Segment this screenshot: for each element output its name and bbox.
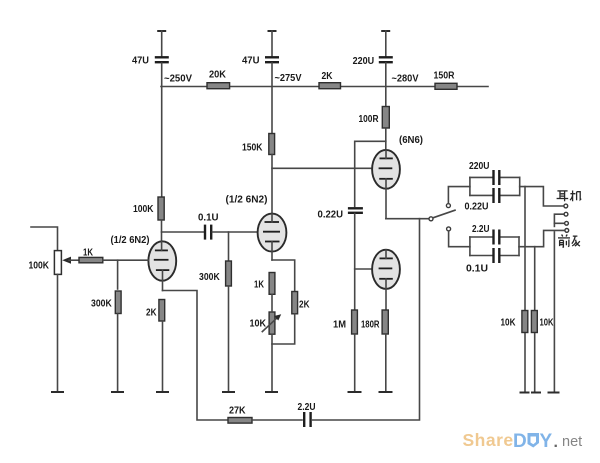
tube V1 (1/2 6N2 input) bbox=[148, 241, 176, 290]
ground pot bbox=[51, 391, 64, 393]
switch common bbox=[429, 217, 433, 221]
resistor 100K (plate load 1) bbox=[158, 197, 164, 220]
wire bbox=[271, 63, 273, 134]
ground 1M bbox=[348, 391, 362, 393]
svg-text:0.1U: 0.1U bbox=[198, 213, 219, 224]
capacitor 2.2U (feedback) bbox=[304, 412, 310, 427]
svg-text:2.2U: 2.2U bbox=[298, 402, 316, 413]
svg-text:2K: 2K bbox=[299, 300, 310, 311]
svg-text:2.2U: 2.2U bbox=[472, 224, 490, 235]
wire bbox=[228, 286, 230, 392]
wire pot bottom bbox=[57, 274, 59, 391]
wire bbox=[117, 314, 119, 392]
B+ bus wire bbox=[161, 86, 488, 88]
wire bbox=[161, 220, 163, 242]
potentiometer 100K body bbox=[54, 251, 61, 275]
label 前级 (preamp) bbox=[558, 235, 580, 248]
resistor 1K (grid stopper) bbox=[79, 257, 103, 262]
resistor 1K (cathode V2) bbox=[269, 273, 275, 295]
svg-text:100K: 100K bbox=[29, 261, 50, 272]
svg-text:~275V: ~275V bbox=[275, 73, 302, 84]
ground cathode network bbox=[265, 391, 278, 393]
switch throw 2 bbox=[447, 227, 451, 231]
ground 300K bbox=[111, 391, 124, 393]
wire bbox=[354, 214, 356, 311]
wire feedback riser bbox=[312, 219, 420, 420]
tube U4 (1/2 6N6 lower) bbox=[372, 250, 400, 310]
svg-text:180R: 180R bbox=[361, 320, 380, 331]
wire bbox=[385, 334, 387, 392]
capacitor 2.2U (output) bbox=[494, 230, 500, 245]
wire bbox=[385, 31, 387, 56]
svg-text:20K: 20K bbox=[209, 70, 227, 81]
capacitor 0.1U (output) bbox=[494, 248, 500, 263]
wire jack ground down bbox=[553, 223, 555, 226]
svg-text:0.1U: 0.1U bbox=[466, 264, 488, 275]
label 耳机 (headphone) bbox=[557, 191, 582, 202]
svg-text:(1/2 6N2): (1/2 6N2) bbox=[111, 235, 150, 246]
wire bbox=[271, 155, 273, 215]
output cap bank 220U/0.22U loop bbox=[470, 177, 520, 195]
jack ground bracket bbox=[554, 214, 564, 223]
svg-text:220U: 220U bbox=[469, 161, 490, 172]
op wire anode tap to 0.22U bbox=[355, 141, 386, 206]
wire 1K to 10K bbox=[271, 294, 273, 312]
wire bbox=[354, 334, 356, 392]
input wire top of pot bbox=[31, 227, 58, 251]
capacitor 0.22U (SRPP coupling) bbox=[348, 208, 363, 213]
ground 300K2 bbox=[222, 391, 235, 393]
capacitor C1 47U bbox=[155, 57, 169, 62]
resistor 2K (bus) bbox=[319, 83, 341, 89]
capacitor 0.1U bbox=[205, 225, 211, 240]
capacitor C3 220U terminal bar bbox=[381, 30, 390, 32]
svg-text:~280V: ~280V bbox=[392, 74, 419, 85]
resistor 150K bbox=[269, 134, 275, 155]
wire throw2 to cap bank bbox=[449, 231, 470, 247]
switch throw 1 bbox=[446, 204, 450, 208]
svg-text:300K: 300K bbox=[91, 299, 112, 310]
wire anode V1 to 0.1U bbox=[162, 231, 204, 233]
svg-text:.: . bbox=[554, 434, 558, 451]
wire grid of U4 bbox=[355, 268, 372, 270]
svg-text:net: net bbox=[562, 434, 582, 450]
wire 1K to grid V1 bbox=[103, 259, 149, 261]
pot wiper arrow bbox=[62, 257, 71, 264]
capacitor 0.22U (output) bbox=[494, 188, 500, 203]
svg-text:Share: Share bbox=[463, 430, 514, 450]
jack terminal 4 bbox=[565, 229, 569, 233]
svg-text:~250V: ~250V bbox=[164, 74, 192, 85]
svg-text:0.22U: 0.22U bbox=[465, 202, 489, 213]
ground 10K2 bbox=[531, 392, 541, 394]
resistor 180R bbox=[382, 310, 388, 334]
resistor 2K (bypass) bbox=[292, 292, 298, 314]
capacitor C1 47U terminal bar bbox=[157, 30, 166, 32]
wire throw1 to cap bank bbox=[448, 187, 470, 204]
capacitor C2 47U terminal bar bbox=[268, 30, 277, 32]
svg-text:47U: 47U bbox=[242, 56, 260, 67]
wire SRPP output to switch bbox=[386, 218, 429, 220]
wire below 10K bbox=[271, 334, 273, 391]
svg-text:27K: 27K bbox=[229, 406, 246, 417]
svg-text:100R: 100R bbox=[359, 114, 380, 125]
resistor 10K (headphone load) bbox=[524, 187, 526, 392]
resistor 300K (grid leak 2) bbox=[228, 232, 230, 261]
ground 2K bbox=[156, 391, 169, 393]
wire bbox=[252, 419, 302, 421]
jack terminal 2 bbox=[564, 212, 568, 216]
svg-text:0.22U: 0.22U bbox=[318, 210, 344, 221]
resistor 2K (cathode V1) bbox=[159, 300, 165, 322]
svg-text:100K: 100K bbox=[133, 204, 154, 215]
wire bbox=[271, 31, 273, 56]
resistor 300K (grid leak 1) bbox=[117, 260, 119, 289]
jack terminal 3 bbox=[565, 221, 569, 225]
svg-text:10K: 10K bbox=[501, 318, 517, 329]
svg-text:220U: 220U bbox=[353, 56, 375, 67]
trimmer 10K bbox=[269, 312, 275, 334]
wire bbox=[161, 63, 163, 197]
svg-text:10K: 10K bbox=[540, 318, 555, 329]
resistor 10K (preout load) bbox=[534, 247, 536, 392]
resistor 150R bbox=[435, 83, 457, 89]
svg-text:Y: Y bbox=[540, 431, 553, 452]
feedback wire from V1 cathode bbox=[163, 291, 229, 421]
switch lever bbox=[433, 210, 455, 218]
svg-text:300K: 300K bbox=[199, 272, 220, 283]
wire headphone feed bbox=[520, 187, 564, 206]
svg-text:(1/2 6N2): (1/2 6N2) bbox=[226, 195, 268, 206]
svg-text:1K: 1K bbox=[254, 280, 265, 291]
wire bbox=[161, 31, 163, 56]
wire bbox=[385, 63, 387, 107]
svg-text:150R: 150R bbox=[434, 71, 456, 82]
ground 10K bbox=[520, 392, 530, 394]
capacitor 220U bbox=[494, 170, 500, 185]
bypass branch 2K (parallel) bbox=[272, 260, 295, 292]
resistor 1M bbox=[352, 310, 358, 334]
resistor 100R bbox=[382, 107, 389, 129]
op-amp tube U3 (1/2 6N6 upper) bbox=[372, 150, 400, 219]
svg-text:(6N6): (6N6) bbox=[399, 135, 423, 146]
wire bbox=[162, 321, 164, 392]
capacitor C2 47U bbox=[265, 57, 279, 62]
resistor 20K bbox=[207, 83, 230, 89]
svg-text:2K: 2K bbox=[146, 308, 157, 319]
jack terminal 1 bbox=[564, 204, 568, 208]
svg-text:150K: 150K bbox=[242, 143, 263, 154]
watermark icon bbox=[528, 433, 540, 448]
capacitor C3 220U bbox=[379, 57, 393, 62]
svg-text:D: D bbox=[513, 431, 527, 452]
output cap bank 2.2U/0.1U loop bbox=[470, 237, 519, 256]
wire bbox=[385, 128, 387, 151]
svg-text:47U: 47U bbox=[132, 56, 149, 67]
svg-text:10K: 10K bbox=[250, 319, 267, 330]
wire preout feed bbox=[519, 230, 565, 246]
resistor 27K (feedback) bbox=[228, 418, 252, 424]
svg-text:1K: 1K bbox=[83, 248, 94, 259]
svg-text:2K: 2K bbox=[322, 71, 334, 82]
wire grid of U3 bbox=[272, 167, 372, 169]
ground jack bbox=[548, 392, 560, 394]
wire 0.1U to grid V2 bbox=[212, 231, 257, 233]
wire bbox=[272, 314, 295, 344]
tube V2 (1/2 6N2 second) bbox=[258, 214, 287, 260]
svg-text:1M: 1M bbox=[333, 320, 346, 331]
watermark ShareDIY.net bbox=[463, 430, 583, 452]
ground 180R bbox=[379, 391, 393, 393]
